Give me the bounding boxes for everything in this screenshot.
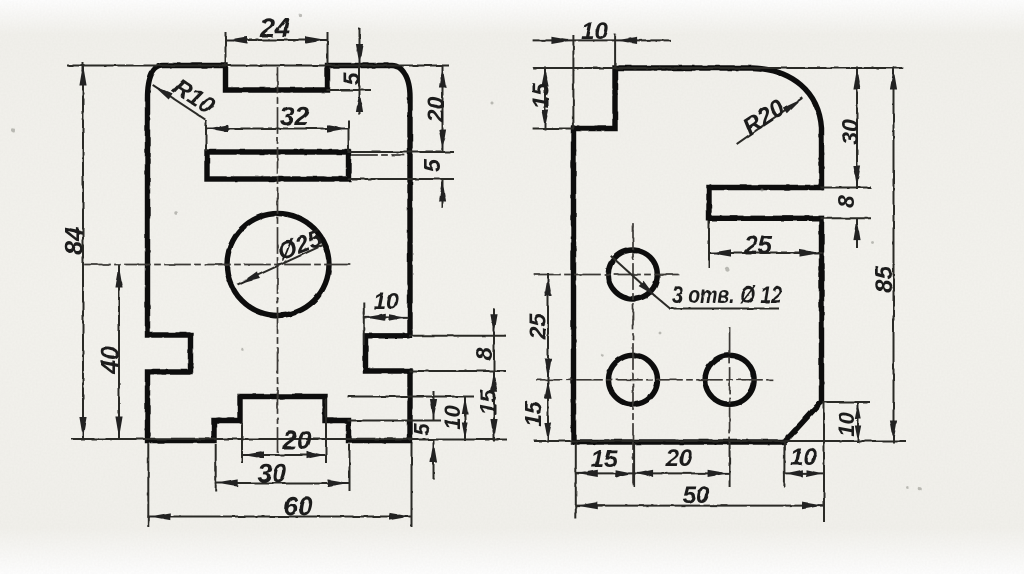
dimension 24 label — [259, 13, 290, 43]
dimension 5 notch label — [339, 71, 365, 85]
right notch top ext — [822, 187, 871, 189]
right top edge extension — [534, 67, 902, 69]
hole B3 vertical centerline — [729, 328, 731, 478]
dimension 50 line — [576, 502, 824, 509]
dimension 20 bottom right line — [634, 470, 730, 477]
svg-text:20: 20 — [282, 425, 312, 455]
svg-text:5: 5 — [339, 71, 365, 85]
tab top extension — [349, 396, 474, 398]
dimension 30 right label — [837, 119, 863, 145]
dimension 32 extension lines — [206, 121, 349, 150]
dimension 20 bottom label — [282, 425, 312, 455]
hole B3 Ø12 — [705, 355, 754, 404]
dimension 20 bottom line — [242, 451, 326, 458]
dimension 20 label — [423, 97, 449, 124]
dimension 10 chamfer label — [834, 412, 859, 437]
right notch bottom ext — [822, 217, 871, 219]
dimension 5 slot arrow — [439, 180, 446, 207]
notch bottom-left extension — [534, 128, 573, 130]
svg-text:10: 10 — [834, 412, 859, 437]
dimension 10 tab line — [462, 397, 468, 441]
svg-text:10: 10 — [790, 444, 817, 471]
right bottom extensions — [576, 404, 824, 521]
holes leader label — [672, 282, 783, 309]
dimension 10 notch label — [373, 288, 399, 314]
svg-text:15: 15 — [528, 82, 554, 109]
dimension 10 tab label — [440, 405, 465, 430]
dimension 15 top label — [528, 82, 554, 109]
top edge extension line — [68, 65, 448, 67]
slot bottom extension — [349, 178, 454, 180]
dimension 60 label — [284, 491, 313, 521]
dimension 30 label — [258, 458, 287, 488]
svg-text:60: 60 — [284, 491, 313, 521]
dimension 10 top label — [581, 18, 608, 45]
dimension 32 line — [206, 125, 349, 132]
svg-text:8: 8 — [471, 347, 497, 360]
dimension 10 chamfer line — [855, 403, 861, 443]
dimension 24 line — [226, 36, 328, 43]
dimension 30 right line — [853, 68, 860, 189]
dimension 15 top line — [541, 68, 548, 130]
dimension 25 notch label — [743, 232, 773, 260]
left plate vertical centerline — [277, 68, 279, 452]
dimension 15 bottom line — [576, 470, 634, 477]
dimension 25 left label — [525, 313, 551, 341]
scan speckles — [11, 13, 922, 490]
dimension 10 notch line — [364, 314, 407, 321]
svg-text:25: 25 — [743, 232, 773, 260]
bottom edge extension line — [72, 438, 412, 440]
svg-text:3 отв. Ø 12: 3 отв. Ø 12 — [672, 282, 783, 309]
dimension 84 line — [79, 64, 86, 439]
svg-text:30: 30 — [258, 458, 287, 488]
holes vertical centerline left — [632, 224, 634, 484]
left plate slot 32x5 — [207, 152, 349, 179]
dimension 5 notch line — [356, 29, 363, 114]
svg-text:32: 32 — [280, 101, 309, 131]
dimension 25 notch line — [709, 249, 822, 256]
dimension 15 left line — [544, 380, 551, 441]
dimension 5 tab label — [410, 423, 435, 436]
dimension 8 right label — [833, 195, 859, 208]
dimension 25 notch extension — [708, 222, 710, 267]
hole B1 Ø12 — [608, 250, 657, 299]
svg-text:84: 84 — [61, 227, 89, 255]
svg-text:20: 20 — [665, 445, 693, 472]
svg-text:10: 10 — [581, 18, 608, 45]
dimension 10 top line — [534, 37, 670, 44]
dimension 20 bottom extensions — [242, 400, 326, 462]
dimension 10 top extension — [573, 35, 615, 127]
dimension 40 label — [97, 346, 125, 375]
svg-text:25: 25 — [525, 313, 551, 341]
holes leader line — [612, 257, 779, 309]
svg-text:30: 30 — [837, 119, 863, 145]
dimension 20 bottom right label — [665, 445, 693, 472]
svg-text:8: 8 — [833, 195, 859, 208]
dimension 40 line — [115, 266, 122, 438]
dimension 30 extensions — [216, 445, 350, 490]
dimension 5 tab arrows — [430, 392, 437, 478]
svg-text:15: 15 — [520, 400, 546, 427]
right notch top extension — [410, 335, 505, 337]
holes horizontal centerline — [537, 379, 776, 381]
dimension 85 label — [871, 266, 898, 293]
slot top extension — [349, 151, 454, 153]
svg-text:10: 10 — [373, 288, 399, 314]
svg-text:10: 10 — [440, 405, 465, 430]
dimension 60 extensions — [148, 444, 411, 526]
right notch bottom extension — [410, 370, 505, 372]
radius R20 leader — [738, 98, 802, 143]
dimension 15 left label — [520, 400, 546, 427]
radius R20 label — [738, 94, 790, 141]
svg-text:15: 15 — [475, 389, 501, 416]
dimension 32 label — [280, 101, 309, 131]
slot centerline stub — [352, 154, 404, 156]
svg-text:5: 5 — [419, 158, 445, 172]
svg-text:24: 24 — [259, 13, 290, 43]
svg-text:5: 5 — [410, 423, 435, 436]
tab step extension — [349, 420, 441, 422]
notch bottom extension — [328, 89, 371, 91]
dimension 85 line — [890, 68, 897, 443]
dimension 24 extension lines — [226, 33, 328, 64]
radius R10 leader — [154, 86, 205, 120]
diameter Ø25 label — [274, 225, 327, 267]
bottom right extension — [410, 439, 506, 441]
dimension 30 line — [216, 479, 350, 486]
dimension 8 label — [471, 347, 497, 360]
svg-text:20: 20 — [423, 97, 449, 124]
svg-text:50: 50 — [683, 482, 710, 509]
svg-text:85: 85 — [871, 266, 898, 293]
right bottom edge extension — [535, 440, 905, 442]
dimension 8 right arrows — [853, 219, 860, 247]
radius R10 label — [168, 73, 220, 120]
svg-text:40: 40 — [97, 346, 125, 375]
dimension 84 label — [61, 227, 89, 255]
diameter Ø25 leader — [239, 246, 323, 285]
dimension 50 label — [683, 482, 710, 509]
dimension 60 line — [148, 513, 411, 520]
dimension 10 bottom line — [784, 470, 824, 477]
chamfer top extension — [824, 401, 869, 403]
dimension 15 bottom label — [591, 446, 618, 473]
dimension 10 bottom label — [790, 444, 817, 471]
hole Ø25 — [227, 214, 329, 316]
dimension 25 left line — [544, 274, 551, 380]
right plate outline — [574, 68, 822, 442]
dimension 10 notch extension — [363, 303, 365, 344]
svg-text:15: 15 — [591, 446, 618, 473]
hole B2 Ø12 — [609, 355, 658, 404]
dimension 5 slot label — [419, 158, 445, 172]
hole Ø25 horizontal centerline — [85, 264, 352, 266]
left plate outline — [148, 66, 411, 441]
dimension 20 line — [439, 66, 446, 152]
dimension 15 label — [475, 389, 501, 416]
hole B1 horizontal centerline — [535, 274, 678, 276]
dimension 8 line — [490, 309, 497, 441]
